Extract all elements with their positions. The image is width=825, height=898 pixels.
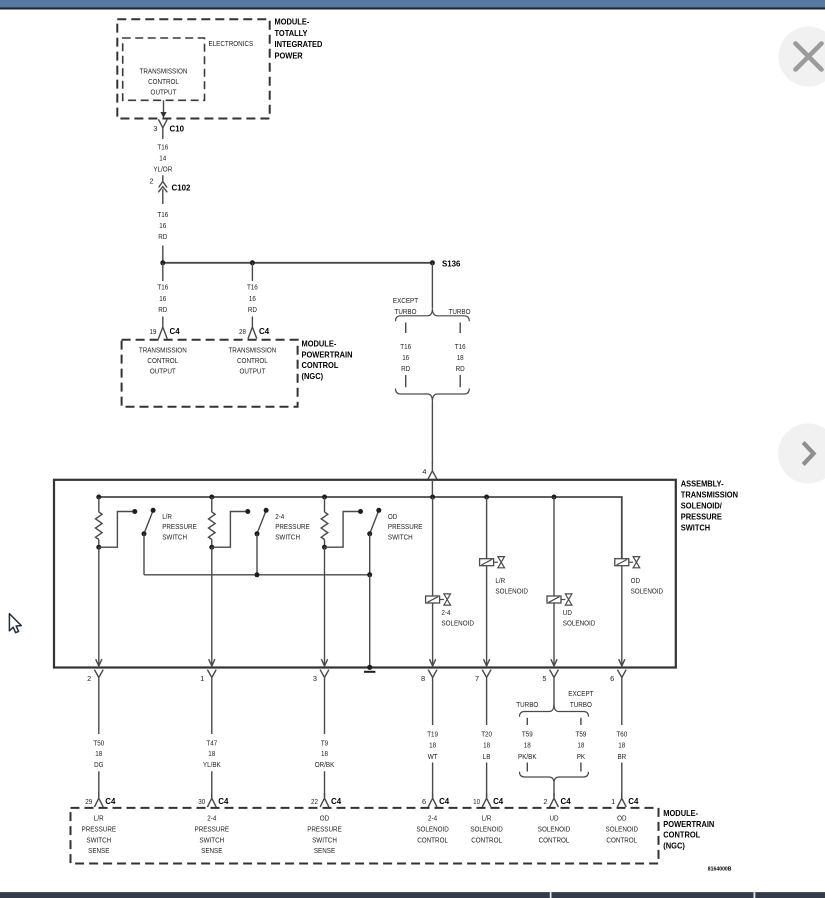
- svg-text:PRESSURE: PRESSURE: [307, 825, 342, 834]
- svg-text:OD: OD: [631, 576, 640, 585]
- svg-text:18: 18: [524, 741, 531, 750]
- connector C4 fork (pin 2): [550, 793, 559, 807]
- switch contact dot (OD): [358, 509, 363, 514]
- svg-text:BR: BR: [617, 752, 626, 761]
- wire to C4 at x=432.6: [432, 763, 434, 798]
- wire to C4 at x=621.8: [621, 763, 623, 798]
- wire branch to PCM pin 28: [251, 263, 253, 281]
- svg-text:OUTPUT: OUTPUT: [151, 88, 177, 97]
- svg-text:T16: T16: [157, 210, 168, 219]
- svg-text:SWITCH: SWITCH: [681, 524, 710, 533]
- svg-text:SWITCH: SWITCH: [162, 533, 187, 542]
- svg-text:T16: T16: [455, 342, 466, 351]
- svg-text:14: 14: [159, 154, 166, 163]
- wire bus to solenoid (2-4): [432, 497, 434, 596]
- arrow into box edge (OD control): [619, 659, 625, 666]
- svg-text:WT: WT: [428, 752, 438, 761]
- svg-text:PRESSURE: PRESSURE: [681, 513, 723, 522]
- svg-text:OD: OD: [617, 814, 626, 823]
- svg-text:OR/BK: OR/BK: [315, 760, 335, 769]
- wire left branch upper: [405, 323, 407, 334]
- wire right branch lower: [580, 763, 582, 772]
- switch blade (L/R pressure switch): [144, 512, 152, 534]
- svg-text:18: 18: [618, 741, 625, 750]
- svg-text:L/R: L/R: [495, 576, 505, 585]
- wire resistor to junction (OD): [324, 540, 326, 548]
- svg-text:T59: T59: [522, 729, 533, 738]
- brace upper (pin5 split): [520, 704, 589, 717]
- svg-text:PRESSURE: PRESSURE: [82, 825, 117, 834]
- svg-text:DG: DG: [94, 760, 104, 769]
- junction dot (OD pivot on return): [367, 572, 372, 577]
- svg-text:POWERTRAIN: POWERTRAIN: [302, 350, 353, 359]
- arrow into box edge (UD control): [551, 659, 557, 666]
- electronics inner dashed box: [123, 38, 205, 100]
- internal supply bus wire: [99, 497, 622, 559]
- svg-text:(NGC): (NGC): [302, 372, 324, 381]
- arrow into box edge (2-4 sense): [209, 659, 215, 666]
- connector C4 fork (pin 19): [158, 317, 167, 339]
- wire bus to resistor (2-4): [211, 497, 213, 512]
- svg-text:6: 6: [610, 674, 614, 683]
- svg-text:RD: RD: [158, 232, 167, 241]
- svg-text:C10: C10: [170, 123, 185, 133]
- svg-text:MODULE-: MODULE-: [302, 340, 337, 349]
- svg-text:2: 2: [543, 797, 547, 806]
- wire bus to resistor (L/R): [98, 497, 100, 512]
- connector C4 fork (pin 29): [94, 793, 103, 807]
- wire from pin at x=621.8: [621, 684, 623, 725]
- svg-text:L/R: L/R: [94, 814, 104, 823]
- svg-text:POWERTRAIN: POWERTRAIN: [663, 820, 714, 829]
- wire down to pin (OD sense): [324, 547, 326, 665]
- svg-text:SENSE: SENSE: [201, 846, 222, 855]
- solenoid coil (L/R solenoid): [480, 559, 494, 566]
- pin 1 fork: [207, 670, 216, 684]
- wire from pin 5: [553, 684, 555, 707]
- splice S136: [430, 260, 435, 265]
- link to valve (UD): [561, 599, 565, 601]
- svg-text:22: 22: [311, 797, 318, 806]
- link to valve (OD): [629, 561, 633, 563]
- svg-text:CONTROL: CONTROL: [237, 356, 268, 365]
- wire bus to solenoid (UD): [553, 497, 555, 596]
- connector C10 fork: [158, 119, 167, 139]
- wire L-path to switch contact (L/R): [99, 512, 133, 548]
- brace lower (turbo merge): [396, 389, 470, 402]
- svg-text:2-4: 2-4: [207, 814, 216, 823]
- svg-text:OUTPUT: OUTPUT: [150, 366, 176, 375]
- svg-text:1: 1: [611, 797, 615, 806]
- svg-text:C4: C4: [170, 326, 180, 336]
- svg-text:CONTROL: CONTROL: [663, 831, 700, 840]
- wire right branch upper: [459, 323, 461, 334]
- resistor (L/R pressure switch): [96, 512, 103, 540]
- wire left branch (T59 PK/BK) upper: [526, 718, 528, 725]
- svg-text:RD: RD: [158, 305, 167, 314]
- svg-text:TURBO: TURBO: [570, 700, 592, 709]
- svg-text:19: 19: [150, 327, 157, 336]
- svg-text:SOLENOID: SOLENOID: [495, 586, 528, 595]
- svg-text:8164000B: 8164000B: [708, 866, 732, 872]
- valve symbol (OD): [633, 557, 640, 568]
- svg-text:SWITCH: SWITCH: [275, 533, 300, 542]
- svg-text:CONTROL: CONTROL: [148, 77, 179, 86]
- valve symbol (2-4): [444, 594, 451, 605]
- svg-text:7: 7: [475, 674, 479, 683]
- svg-text:29: 29: [85, 797, 92, 806]
- svg-text:18: 18: [483, 741, 490, 750]
- pin 8 fork: [428, 670, 437, 684]
- junction dot below resistor (L/R): [96, 545, 101, 550]
- svg-text:T50: T50: [93, 738, 104, 747]
- wire left branch lower: [405, 375, 407, 387]
- wire right branch lower: [459, 375, 461, 387]
- wire solenoid to pin (UD): [553, 603, 555, 665]
- wire solenoid to pin (2-4): [432, 603, 434, 665]
- svg-text:18: 18: [95, 749, 102, 758]
- svg-text:PK: PK: [577, 752, 585, 761]
- module box - TOTALLY INTEGRATED POWER (dashed): [117, 19, 269, 118]
- svg-text:C102: C102: [172, 182, 191, 192]
- svg-text:TURBO: TURBO: [516, 700, 538, 709]
- svg-text:T16: T16: [247, 283, 258, 292]
- wire to C4 at x=324.5: [324, 771, 326, 797]
- svg-text:LB: LB: [483, 752, 491, 761]
- switch contact dot (2-4): [245, 509, 250, 514]
- connector C4 fork (pin 28): [248, 317, 257, 339]
- svg-text:CONTROL: CONTROL: [539, 835, 570, 844]
- resistor (2-4 pressure switch): [209, 512, 216, 540]
- valve symbol (L/R): [498, 557, 505, 568]
- arrow into box edge (2-4 control): [430, 659, 436, 666]
- svg-text:8: 8: [421, 674, 425, 683]
- wire down to pin (L/R sense): [98, 547, 100, 665]
- svg-text:C4: C4: [493, 796, 503, 806]
- connector C4 fork (pin 1): [617, 793, 626, 807]
- svg-text:CONTROL: CONTROL: [147, 356, 178, 365]
- ui top bar: [0, 0, 825, 7]
- junction dot below resistor (2-4): [209, 545, 214, 550]
- svg-text:OD: OD: [388, 512, 397, 521]
- svg-text:PK/BK: PK/BK: [518, 752, 537, 761]
- svg-text:EXCEPT: EXCEPT: [568, 689, 594, 698]
- arrow into box edge (OD sense): [321, 659, 327, 666]
- svg-text:PRESSURE: PRESSURE: [162, 522, 197, 531]
- resistor (OD pressure switch): [321, 512, 328, 540]
- wire from pin at x=486.6: [486, 684, 488, 725]
- link to valve (L/R): [494, 561, 498, 563]
- svg-text:OUTPUT: OUTPUT: [239, 366, 265, 375]
- svg-text:RD: RD: [456, 364, 465, 373]
- svg-text:16: 16: [159, 294, 166, 303]
- svg-text:T16: T16: [400, 342, 411, 351]
- switch blade (OD pressure switch): [370, 512, 378, 534]
- svg-text:C4: C4: [439, 796, 449, 806]
- svg-text:C4: C4: [561, 796, 571, 806]
- horizontal wire to S136: [163, 262, 433, 264]
- solenoid coil (UD solenoid): [547, 596, 561, 603]
- pin 5 fork: [550, 670, 559, 684]
- svg-text:T16: T16: [157, 142, 168, 151]
- switch contact dot (L/R): [132, 509, 137, 514]
- svg-text:T19: T19: [427, 729, 438, 738]
- wire right branch (T59 PK) upper: [580, 718, 582, 725]
- svg-text:C4: C4: [105, 796, 115, 806]
- svg-text:3: 3: [153, 124, 157, 133]
- svg-text:30: 30: [198, 797, 205, 806]
- wire from pin at x=324.5: [324, 684, 326, 734]
- case ground (dot and bar on box edge): [367, 665, 372, 670]
- svg-text:T59: T59: [576, 729, 587, 738]
- wire return to case ground: [369, 575, 371, 667]
- junction dot below resistor (OD): [322, 545, 327, 550]
- svg-text:18: 18: [208, 749, 215, 758]
- svg-text:C4: C4: [331, 796, 341, 806]
- wire from pin at x=98.8: [98, 684, 100, 734]
- svg-text:OD: OD: [320, 814, 329, 823]
- wire L-path to switch contact (OD): [325, 512, 359, 548]
- svg-text:16: 16: [402, 353, 409, 362]
- ui close button: [779, 27, 825, 87]
- wire left branch lower: [526, 763, 528, 772]
- junction dot bus (2-4 branch): [209, 495, 214, 500]
- wire from pin at x=211.8: [211, 684, 213, 734]
- brace upper (turbo split): [396, 308, 470, 321]
- solenoid coil (2-4 solenoid): [426, 596, 440, 603]
- svg-text:SOLENOID: SOLENOID: [470, 825, 503, 834]
- assembly box - TRANSMISSION SOLENOID/PRESSURE SWITCH: [54, 480, 676, 668]
- svg-text:ELECTRONICS: ELECTRONICS: [209, 39, 254, 48]
- svg-text:SWITCH: SWITCH: [199, 835, 224, 844]
- svg-text:CONTROL: CONTROL: [471, 835, 502, 844]
- svg-text:18: 18: [429, 741, 436, 750]
- wire blade pivot down (OD): [369, 534, 371, 575]
- wire bus to solenoid (L/R): [486, 497, 488, 559]
- svg-text:16: 16: [249, 294, 256, 303]
- wire bus to solenoid (OD): [621, 497, 623, 559]
- svg-text:SOLENOID/: SOLENOID/: [681, 502, 723, 511]
- junction dot A: [160, 260, 165, 265]
- wire to C4 at x=98.8: [98, 771, 100, 797]
- pin 3 fork: [320, 670, 329, 684]
- wire down to pin (2-4 sense): [211, 547, 213, 665]
- ui next button: [778, 424, 825, 484]
- svg-text:L/R: L/R: [162, 512, 172, 521]
- connector fork (pin 4): [428, 462, 437, 479]
- svg-text:L/R: L/R: [482, 814, 492, 823]
- svg-text:S136: S136: [442, 258, 461, 268]
- svg-text:18: 18: [577, 741, 584, 750]
- wire from pin at x=432.6: [432, 684, 434, 725]
- svg-text:TURBO: TURBO: [395, 307, 417, 316]
- svg-text:C4: C4: [628, 796, 638, 806]
- pin 7 fork: [482, 670, 491, 684]
- svg-text:SOLENOID: SOLENOID: [416, 825, 449, 834]
- svg-text:28: 28: [239, 327, 246, 336]
- svg-text:T9: T9: [321, 738, 328, 747]
- wire L-path to switch contact (2-4): [212, 512, 246, 548]
- junction dot (2-4 pivot on return): [255, 572, 260, 577]
- svg-text:2: 2: [87, 674, 91, 683]
- wire merge to C4 pin 2: [553, 784, 555, 798]
- svg-text:10: 10: [473, 797, 480, 806]
- svg-text:1: 1: [200, 674, 204, 683]
- svg-text:SWITCH: SWITCH: [86, 835, 111, 844]
- svg-text:PRESSURE: PRESSURE: [195, 825, 230, 834]
- svg-text:EXCEPT: EXCEPT: [393, 296, 419, 305]
- svg-text:INTEGRATED: INTEGRATED: [275, 40, 323, 49]
- svg-text:SOLENOID: SOLENOID: [441, 618, 474, 627]
- svg-text:YL/OR: YL/OR: [153, 164, 172, 173]
- svg-text:SOLENOID: SOLENOID: [538, 825, 571, 834]
- svg-text:T16: T16: [157, 283, 168, 292]
- svg-text:TRANSMISSION: TRANSMISSION: [681, 491, 738, 500]
- junction dot bus (L/R solenoid): [484, 495, 489, 500]
- svg-text:2-4: 2-4: [428, 814, 437, 823]
- solenoid coil (OD solenoid): [615, 559, 629, 566]
- junction dot bus (L/R branch): [96, 495, 101, 500]
- module box - POWERTRAIN CONTROL bottom (dashed): [71, 808, 659, 864]
- link to valve (2-4): [440, 599, 444, 601]
- wire bus to resistor (OD): [324, 497, 326, 512]
- svg-text:RD: RD: [401, 364, 410, 373]
- svg-text:RD: RD: [248, 305, 257, 314]
- switch blade (2-4 pressure switch): [257, 512, 265, 534]
- svg-text:TRANSMISSION: TRANSMISSION: [228, 345, 276, 354]
- arrow into box edge (L/R sense): [96, 659, 102, 666]
- svg-text:3: 3: [313, 674, 317, 683]
- svg-text:18: 18: [457, 353, 464, 362]
- wire blade pivot down (2-4): [256, 534, 258, 575]
- svg-text:ASSEMBLY-: ASSEMBLY-: [681, 480, 724, 489]
- svg-text:T60: T60: [616, 729, 627, 738]
- svg-text:18: 18: [321, 749, 328, 758]
- svg-text:2: 2: [149, 177, 153, 186]
- svg-text:C4: C4: [259, 326, 269, 336]
- wire solenoid to pin (L/R): [486, 566, 488, 666]
- brace lower (pin5 merge): [520, 772, 589, 784]
- junction dot bus (OD branch): [322, 495, 327, 500]
- wire to C4 at x=486.6: [486, 763, 488, 798]
- svg-text:MODULE-: MODULE-: [275, 18, 310, 27]
- pin 2 fork: [94, 670, 103, 684]
- svg-text:SENSE: SENSE: [88, 846, 109, 855]
- pin 6 fork: [617, 670, 626, 684]
- svg-text:CONTROL: CONTROL: [417, 835, 448, 844]
- ui bottom bar: [0, 892, 825, 898]
- svg-text:TURBO: TURBO: [449, 307, 471, 316]
- wire solenoid to pin (OD): [621, 566, 623, 666]
- wire from merge to pin 4: [431, 402, 433, 464]
- svg-text:CONTROL: CONTROL: [606, 835, 637, 844]
- wire resistor to junction (2-4): [211, 540, 213, 548]
- connector C4 fork (pin 30): [207, 793, 216, 807]
- svg-text:UD: UD: [549, 814, 558, 823]
- svg-text:SENSE: SENSE: [314, 846, 335, 855]
- valve symbol (UD): [565, 594, 572, 605]
- arrow into box edge (L/R control): [484, 659, 490, 666]
- svg-text:2-4: 2-4: [275, 512, 284, 521]
- wire pin4 into bus: [431, 480, 433, 497]
- svg-text:PRESSURE: PRESSURE: [388, 522, 423, 531]
- connector C4 fork (pin 6): [428, 793, 437, 807]
- mouse cursor: [9, 614, 21, 633]
- svg-text:POWER: POWER: [275, 52, 303, 61]
- svg-text:PRESSURE: PRESSURE: [275, 522, 310, 531]
- connector C4 fork (pin 22): [320, 793, 329, 807]
- module box - POWERTRAIN CONTROL (dashed): [122, 340, 298, 407]
- svg-text:2-4: 2-4: [441, 608, 450, 617]
- svg-text:5: 5: [542, 674, 546, 683]
- wire blade pivot down (L/R): [143, 534, 145, 575]
- svg-text:C4: C4: [218, 796, 228, 806]
- svg-text:T47: T47: [206, 738, 217, 747]
- svg-text:CONTROL: CONTROL: [302, 361, 339, 370]
- junction dot bus (UD solenoid): [552, 495, 557, 500]
- wire branch to PCM pin 19: [162, 263, 164, 281]
- svg-text:4: 4: [422, 467, 426, 476]
- wire resistor to junction (L/R): [98, 540, 100, 548]
- svg-text:SOLENOID: SOLENOID: [563, 618, 596, 627]
- svg-text:T20: T20: [481, 729, 492, 738]
- common switch return wire: [144, 574, 370, 576]
- svg-text:SOLENOID: SOLENOID: [631, 586, 664, 595]
- wire to splice row: [162, 246, 164, 263]
- wire to C4 at x=211.8: [211, 771, 213, 797]
- svg-text:TRANSMISSION: TRANSMISSION: [139, 345, 187, 354]
- svg-text:SOLENOID: SOLENOID: [606, 825, 639, 834]
- junction dot B: [250, 260, 255, 265]
- svg-text:TOTALLY: TOTALLY: [275, 29, 308, 38]
- svg-text:MODULE-: MODULE-: [663, 809, 698, 818]
- svg-text:SWITCH: SWITCH: [312, 835, 337, 844]
- wire arrow from electronics to module edge: [163, 100, 165, 113]
- wire from S136 down: [431, 263, 433, 308]
- svg-text:YL/BK: YL/BK: [203, 760, 221, 769]
- svg-text:16: 16: [159, 221, 166, 230]
- svg-text:SWITCH: SWITCH: [388, 533, 413, 542]
- junction dot bus (2-4 solenoid): [430, 495, 435, 500]
- connector C4 fork (pin 10): [482, 793, 491, 807]
- connector C102 (in-line, chevron + arrow): [162, 175, 164, 181]
- svg-text:6: 6: [422, 797, 426, 806]
- svg-text:(NGC): (NGC): [663, 841, 685, 850]
- svg-text:TRANSMISSION: TRANSMISSION: [140, 67, 188, 76]
- svg-text:UD: UD: [563, 608, 572, 617]
